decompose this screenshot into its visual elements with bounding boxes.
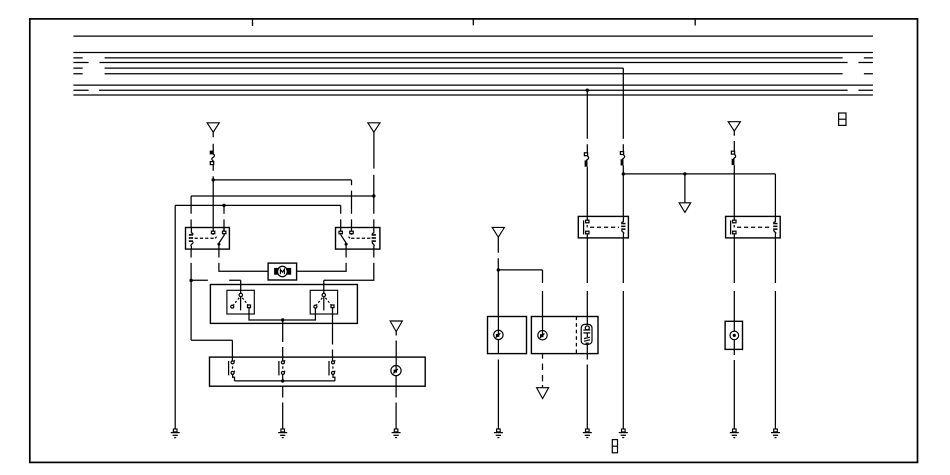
relay 2 contact b xyxy=(350,231,353,234)
wire: breaker CB1 down to node xyxy=(212,165,214,180)
wire: triangle A3 down to node (dashed) xyxy=(497,237,499,270)
wire: lamp to ground xyxy=(395,386,397,429)
wire: relay 3 switch down to courtesy bulb xyxy=(586,238,588,317)
wire: triangle A1 to breaker xyxy=(212,132,214,151)
wire: relay1 coil to actuator node (dashed below box) xyxy=(190,249,192,280)
bus wire 1 xyxy=(73,35,873,37)
courtesy box divider (dashed) xyxy=(575,317,577,354)
ground G3 xyxy=(392,429,401,438)
relay 3 coil xyxy=(622,216,624,223)
relay 2 coil xyxy=(372,228,374,235)
circuit breaker CB4 xyxy=(731,151,735,165)
relay 1 dashed actuator link xyxy=(195,237,216,239)
ground G6 xyxy=(619,429,628,438)
bus wire 9 xyxy=(73,94,873,96)
courtesy switch B box xyxy=(531,317,598,354)
power triangle A3 (middle) xyxy=(492,227,504,237)
relay 3 (middle) xyxy=(578,216,628,238)
courtesy switch C contact xyxy=(730,321,739,349)
node: left feed junction xyxy=(212,178,215,181)
relay 1 pivot xyxy=(217,243,220,246)
wire: triangle A2 node down to relay 2 coil xyxy=(373,196,375,228)
bus wire 3 xyxy=(73,57,873,59)
wire: feed junction to relay 1 contact xyxy=(212,180,214,231)
wire: switch B down to triangle A6 (dashed) xyxy=(542,354,544,388)
node: bus tap for middle relay xyxy=(586,89,589,92)
wire: switch A to ground xyxy=(497,340,499,429)
relay 4 contact b xyxy=(733,231,736,234)
lock switch L xyxy=(231,293,251,310)
courtesy switch B contact xyxy=(538,317,547,340)
courtesy switch C box xyxy=(725,321,742,349)
wire: relay 3 coil down to ground xyxy=(622,238,624,429)
wire: CB2 to relay 3 xyxy=(586,167,588,216)
connector triangle A6 (down stub) xyxy=(537,388,549,399)
wire: lamp down out of box xyxy=(395,376,397,387)
relay 1 (driver side, left) xyxy=(186,228,230,250)
key illumination lamp (circle in master switch box) xyxy=(391,365,401,376)
master switch 2 xyxy=(279,360,285,381)
wire: relay 1 pivot to motor (dashed drop) xyxy=(219,249,268,271)
relay 1 coil xyxy=(191,228,193,235)
relay 4 dashed actuator link xyxy=(737,226,771,228)
wire: triangle A7 to breaker CB4 xyxy=(733,131,735,151)
wire: tap stub to lock switch L xyxy=(191,280,241,293)
circuit breaker CB1 xyxy=(210,151,214,165)
node: master switch ground tap xyxy=(281,379,284,382)
wire: node stub right and down to switch B xyxy=(498,270,542,317)
connector J1 (2-cell, top right) xyxy=(839,113,846,125)
wire: feed crossover to right relay coil xyxy=(623,174,775,217)
bus wire 4 xyxy=(73,62,873,64)
wire: relay 4 switch down to switch C xyxy=(733,238,735,321)
relay 4 contact gap dash xyxy=(733,225,735,229)
wire: triangle A2 down to coil node (dashed) xyxy=(373,132,375,196)
circuit breaker CB2 xyxy=(584,153,588,167)
ground G4 xyxy=(494,429,503,438)
wire: lock switch link bus inside assembly xyxy=(249,308,315,320)
relay 3 contact a xyxy=(586,216,588,220)
wire: ground return (y=205) from left riser to relay 2 left contact xyxy=(175,205,341,231)
wire: relay 2 coil down and over to lock switch R xyxy=(324,249,374,293)
node: left actuator tap xyxy=(189,279,192,282)
node: assembly output tap xyxy=(281,318,284,321)
lock switch R inner box xyxy=(310,290,337,314)
courtesy switch A contact xyxy=(494,317,503,340)
wire: node down to switch A xyxy=(497,270,499,317)
relay 3 switch arm bar xyxy=(583,220,585,234)
relay 1 movable arm xyxy=(219,235,225,243)
wire: CB3 down to feed node xyxy=(622,166,624,174)
relay 1 contact b xyxy=(223,231,226,234)
relay 3 dashed actuator link xyxy=(590,226,619,228)
wire: crossover feed (y=180) to relay 2 right contact xyxy=(213,180,351,231)
relay 1 contact a xyxy=(211,231,214,234)
wire: assembly tap down to master switch 2 xyxy=(282,320,284,361)
door lock switch assembly box xyxy=(210,285,357,324)
node: middle feed junction xyxy=(622,172,625,175)
ground G8 xyxy=(771,429,780,438)
ground G1 xyxy=(171,429,180,438)
master switch box xyxy=(210,357,426,386)
power triangle A2 xyxy=(368,123,380,132)
lock switch R xyxy=(314,293,334,310)
relay 2 (passenger side, right) xyxy=(336,228,380,250)
wire: lock switch R to master switch 3 xyxy=(332,308,334,361)
node: coil feed junction xyxy=(372,194,375,197)
wire: bus tap down to breaker CB2 xyxy=(586,90,588,153)
wire: tap continues down and over to master switch 1 xyxy=(191,281,232,361)
connector triangle A5 (down stub) xyxy=(679,203,691,213)
node: courtesy feed junction xyxy=(497,268,500,271)
wire: tap down to relay 1 right contact xyxy=(223,205,225,231)
relay 2 dashed actuator link xyxy=(350,237,370,239)
circuit breaker CB3 xyxy=(620,152,624,166)
bus wire 8 xyxy=(73,89,873,91)
wire: motor to relay 2 pivot (dashed rise) xyxy=(297,249,347,271)
lock switch L inner box xyxy=(227,290,254,314)
courtesy lamp bulb xyxy=(581,317,592,354)
wire: master switch common bus xyxy=(235,380,335,382)
relay 4 (right) xyxy=(726,216,781,238)
relay 4 switch arm bar xyxy=(730,220,732,234)
relay 3 contact b xyxy=(586,231,589,234)
wire: coil feed crossover (y=196) to relay 1 coil xyxy=(191,196,374,228)
master switch 3 xyxy=(329,360,335,381)
bus wire 5 xyxy=(73,67,623,69)
relay 4 contact a xyxy=(733,216,735,220)
bus wire 2 xyxy=(73,52,873,54)
ground G7 xyxy=(730,429,739,438)
ground G2 xyxy=(278,429,287,438)
relay 2 pivot xyxy=(345,243,348,246)
wire: feed node to relay 3 coil xyxy=(622,174,624,217)
wire: long left ground riser xyxy=(174,205,176,429)
wire: switch C to ground xyxy=(733,349,735,429)
relay 2 contact a xyxy=(339,231,342,234)
wire: bulb to ground xyxy=(586,354,588,429)
power triangle A7 (right) xyxy=(728,122,740,131)
wire: relay1 contact stubs from top xyxy=(223,228,225,232)
relay 4 coil xyxy=(774,216,776,223)
wire: bus 5 corner down to breaker CB3 xyxy=(622,68,624,152)
motor M1 (door lock motor) xyxy=(268,263,297,280)
wire: CB4 down to relay 4 xyxy=(733,166,735,217)
node: relay1 right contact tap xyxy=(222,204,225,207)
bus wire 6 xyxy=(73,73,873,75)
node: crossover tap to triangle xyxy=(683,172,686,175)
master switch 1 xyxy=(229,360,235,381)
wire: master switch tap to ground xyxy=(282,386,284,429)
power triangle A1 xyxy=(207,123,219,132)
wire: relay 4 coil down to ground xyxy=(774,238,776,429)
courtesy switch A box xyxy=(488,317,527,354)
wire: triangle A4 down into master switch box xyxy=(395,331,397,365)
ground G5 xyxy=(583,429,592,438)
wire: tap down to triangle A5 xyxy=(684,174,686,203)
relay 2 movable arm xyxy=(341,235,346,243)
connector J2 (2-cell, bottom middle) xyxy=(612,440,617,453)
power triangle A4 (above key switch) xyxy=(390,321,402,332)
relay 3 contact gap dash xyxy=(586,225,588,229)
bus wire 7 xyxy=(73,84,873,86)
